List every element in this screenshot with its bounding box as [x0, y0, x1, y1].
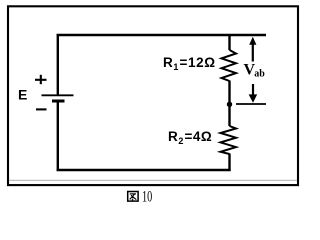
svg-text:=4Ω: =4Ω — [185, 129, 213, 144]
svg-text:R: R — [163, 55, 173, 70]
svg-text:E: E — [18, 87, 27, 103]
svg-text:10: 10 — [142, 187, 152, 205]
svg-text:2: 2 — [178, 136, 183, 146]
svg-text:=12Ω: =12Ω — [180, 55, 216, 70]
svg-text:ab: ab — [254, 68, 265, 79]
svg-text:R: R — [168, 129, 178, 144]
svg-text:1: 1 — [173, 62, 178, 72]
